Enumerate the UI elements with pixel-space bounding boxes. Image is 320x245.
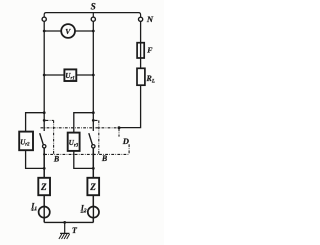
svg-text:RL: RL: [146, 74, 156, 85]
svg-text:T: T: [72, 226, 78, 235]
svg-text:S: S: [91, 2, 96, 12]
svg-text:I2: I2: [80, 204, 87, 215]
svg-text:B: B: [53, 154, 60, 163]
svg-text:F: F: [147, 46, 153, 55]
svg-text:B: B: [101, 154, 108, 163]
svg-text:Z: Z: [40, 182, 47, 192]
svg-text:N: N: [146, 14, 154, 24]
svg-text:D: D: [122, 136, 129, 146]
svg-text:Z: Z: [89, 182, 96, 192]
